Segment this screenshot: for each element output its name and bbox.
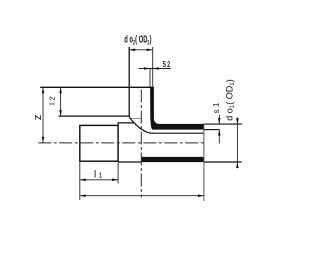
label do1(OD1) right (rotated) xyxy=(224,79,236,121)
dimension do2: extension right xyxy=(152,47,154,87)
svg-text:( OD: ( OD xyxy=(224,85,234,104)
node: branch right wall + top run wall (section fill) xyxy=(150,87,204,130)
svg-text:): ) xyxy=(224,79,234,82)
node: socket body rectangle xyxy=(80,125,118,161)
wire: socket stop vertical line xyxy=(203,124,205,201)
wire: branch top edge / extension line y=87.3 xyxy=(40,86,153,88)
wire: top outer line right of stop xyxy=(204,123,242,125)
dimension l2 line xyxy=(60,87,62,116)
dimension l1: extensions xyxy=(79,162,81,200)
svg-text:2: 2 xyxy=(48,96,57,100)
svg-text:s 1: s 1 xyxy=(212,102,221,113)
dimension S2: inner wall extension xyxy=(149,69,151,88)
label do2(OD2) top xyxy=(124,34,152,47)
dimension overall length line xyxy=(80,195,204,197)
wire: top inner stub right of stop xyxy=(204,129,220,131)
wire: step up at socket right corner xyxy=(118,123,134,126)
wire: bore line y=133.2 xyxy=(154,132,204,134)
svg-text:S 2: S 2 xyxy=(163,61,171,69)
dimension l1 line xyxy=(80,179,118,181)
svg-text:d o: d o xyxy=(224,108,234,121)
dimension do2 line xyxy=(129,49,153,51)
label l2 (rotated) xyxy=(48,96,57,105)
svg-text:1: 1 xyxy=(99,173,103,180)
wire: branch left edge xyxy=(128,47,130,117)
label S2 xyxy=(163,61,171,69)
node: vertical centerline xyxy=(140,90,142,198)
dimension s1 arrows xyxy=(218,115,220,124)
wire: ledge line y=116.4 xyxy=(59,115,130,117)
wire: bottom outer line from socket to band xyxy=(118,161,142,163)
node: bottom run wall (section fill) xyxy=(142,157,204,162)
svg-text:z: z xyxy=(32,115,44,121)
wire: saddle curve xyxy=(129,117,154,133)
svg-text:d o: d o xyxy=(124,34,133,45)
wire: branch socket stop faint line xyxy=(130,117,142,119)
wire: bottom outer line right of stop xyxy=(204,161,242,163)
dimension z line xyxy=(42,87,44,143)
svg-text:): ) xyxy=(150,34,152,45)
dimension S2 line xyxy=(139,68,171,70)
dimension do1 line (right, arrows outside) xyxy=(236,118,238,169)
node: horizontal centerline xyxy=(38,142,206,144)
svg-text:l: l xyxy=(48,103,57,105)
svg-text:( OD: ( OD xyxy=(135,34,147,45)
svg-text:l: l xyxy=(94,170,96,181)
